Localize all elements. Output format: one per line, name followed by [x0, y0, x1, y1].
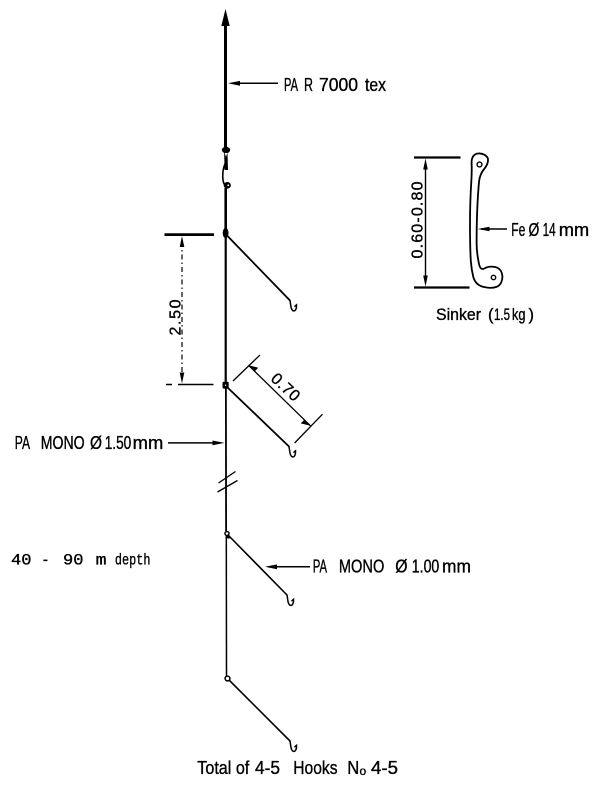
svg-text:Sinker(1.5kg): Sinker(1.5kg): [436, 306, 534, 324]
svg-text:Total of4-5HooksNo4-5: Total of4-5HooksNo4-5: [197, 758, 398, 778]
svg-text:FeØ14mm: FeØ14mm: [511, 220, 589, 240]
svg-text:PAR7000tex: PAR7000tex: [284, 75, 386, 95]
svg-text:0.70: 0.70: [267, 370, 303, 405]
svg-text:2.50: 2.50: [168, 299, 185, 335]
svg-text:PAMONOØ1.00mm: PAMONOØ1.00mm: [313, 556, 471, 576]
svg-text:40-90mdepth: 40-90mdepth: [11, 551, 151, 569]
svg-text:0.60-0.80: 0.60-0.80: [410, 181, 427, 258]
svg-text:PAMONOØ1.50mm: PAMONOØ1.50mm: [15, 433, 163, 453]
